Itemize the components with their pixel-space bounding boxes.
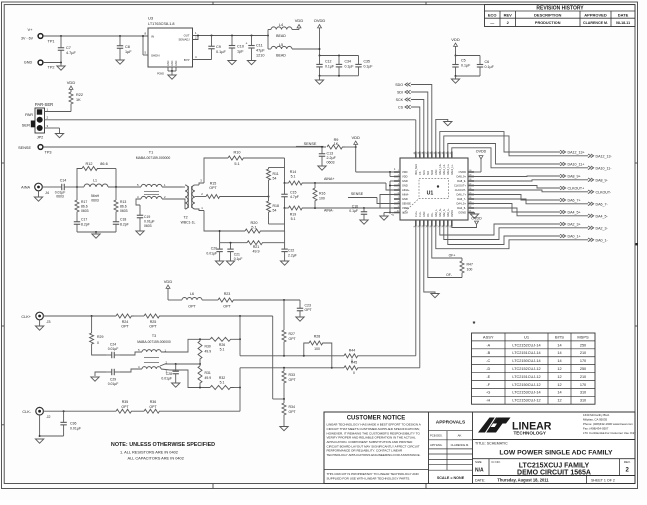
svg-text:-C: -C (486, 359, 490, 363)
svg-text:CLK+: CLK+ (21, 315, 31, 319)
capacitor C23 (296, 300, 313, 321)
wire DA6_7+ net (471, 195, 581, 203)
svg-text:AINA: AINA (21, 186, 30, 190)
svg-text:-D: -D (486, 367, 490, 371)
svg-text:CLK-: CLK- (419, 211, 422, 217)
svg-text:0603: 0603 (120, 209, 128, 213)
resistor R34 (280, 399, 297, 431)
svg-text:Thursday, August 18, 2011: Thursday, August 18, 2011 (497, 477, 549, 482)
resistor R20 bottom loop (204, 211, 285, 234)
svg-text:JP2: JP2 (37, 136, 44, 140)
wire PAR_SER net riser (415, 120, 417, 155)
svg-text:R36: R36 (150, 400, 156, 404)
svg-text:VDD: VDD (451, 37, 460, 42)
svg-text:DA2_3+: DA2_3+ (439, 208, 442, 217)
wire DA10_11- net (452, 148, 612, 171)
svg-text:R10: R10 (234, 151, 241, 155)
resistor R29 (90, 316, 106, 355)
svg-text:R33: R33 (289, 373, 295, 377)
svg-text:PAR-SER: PAR-SER (35, 102, 53, 107)
svg-text:21: 21 (469, 211, 471, 213)
svg-text:*: * (473, 321, 476, 328)
svg-text:DA12_13+: DA12_13+ (439, 163, 442, 175)
resistor R35 (116, 400, 144, 413)
capacitor C18 (113, 214, 129, 232)
svg-text:R17: R17 (81, 200, 87, 204)
VDD symbol at C5 (451, 37, 460, 57)
svg-text:TP3: TP3 (45, 151, 52, 155)
svg-text:0.01µF: 0.01µF (70, 427, 81, 431)
svg-text:Milpitas, CA 95035: Milpitas, CA 95035 (583, 418, 607, 422)
resistor R22 (67, 80, 83, 112)
svg-text:C21: C21 (234, 253, 240, 257)
svg-text:0603: 0603 (56, 195, 64, 199)
svg-text:C6: C6 (485, 60, 490, 64)
svg-text:R26: R26 (219, 343, 225, 347)
ground below C13 (318, 163, 326, 170)
svg-text:310: 310 (580, 399, 586, 403)
address block (583, 413, 636, 435)
svg-text:V+: V+ (27, 27, 33, 32)
svg-text:DA0_1+: DA0_1+ (447, 208, 450, 217)
ground U3 (168, 71, 176, 79)
svg-text:5.1: 5.1 (291, 174, 296, 178)
capacitor C9 (208, 36, 226, 60)
testpoint TP2 (24, 60, 55, 69)
svg-text:250: 250 (580, 343, 586, 347)
wire CLK+ to U1 (415, 223, 417, 356)
svg-text:28: 28 (469, 179, 471, 181)
svg-text:SCK: SCK (396, 98, 404, 102)
wire OF- net (428, 223, 462, 278)
wire VCM to ground (380, 213, 397, 221)
svg-text:DA10_11-: DA10_11- (596, 166, 613, 170)
svg-text:MSPS: MSPS (577, 334, 589, 339)
svg-text:-G: -G (486, 391, 490, 395)
VDD symbol clock (164, 279, 182, 300)
transformer T2 WBC1-1L (181, 179, 206, 225)
svg-text:C24: C24 (110, 343, 116, 347)
wire AINA+ net (285, 170, 398, 190)
wire J3 branch down (239, 316, 284, 399)
svg-text:CLARENCE M.: CLARENCE M. (583, 21, 608, 25)
svg-text:0.1µF: 0.1µF (349, 209, 358, 213)
svg-text:DA4_5-: DA4_5- (457, 206, 466, 210)
svg-text:C10: C10 (237, 45, 244, 49)
svg-text:OPT: OPT (305, 308, 313, 312)
wire DA2_3+ net (440, 222, 581, 235)
capacitor C34 (336, 56, 354, 76)
svg-text:REVISION HISTORY: REVISION HISTORY (536, 6, 584, 12)
capacitor C28 (161, 364, 180, 387)
svg-text:VDD: VDD (295, 18, 304, 23)
svg-text:ECO: ECO (488, 12, 497, 17)
svg-text:VCM: VCM (402, 211, 408, 215)
svg-text:DA4_5+: DA4_5+ (457, 202, 467, 206)
resistor R44 (344, 348, 416, 363)
svg-text:TP2: TP2 (48, 66, 55, 70)
ground below J4 (34, 190, 42, 201)
svg-text:CLKOUT+: CLKOUT+ (568, 187, 585, 191)
svg-text:U1: U1 (524, 334, 530, 339)
ground below C19 (136, 228, 144, 235)
wire VDD to U1 (356, 147, 397, 177)
svg-text:R16: R16 (319, 192, 325, 196)
svg-text:C14: C14 (60, 179, 67, 183)
wire DA8_9- net (471, 178, 608, 182)
svg-text:J2: J2 (46, 415, 50, 419)
resistor R9 (327, 138, 357, 149)
svg-text:OPT: OPT (121, 324, 129, 328)
svg-text:GND: GND (402, 184, 408, 188)
svg-text:4.7pF: 4.7pF (290, 195, 299, 199)
wire DA4_5+ net (471, 204, 581, 215)
svg-text:DA8_9+: DA8_9+ (568, 175, 581, 179)
svg-text:R20: R20 (251, 221, 258, 225)
svg-text:210: 210 (580, 351, 586, 355)
svg-text:SDI: SDI (397, 91, 403, 95)
svg-text:IN: IN (151, 35, 154, 39)
svg-text:2: 2 (398, 175, 399, 177)
svg-text:R19: R19 (290, 213, 296, 217)
svg-text:LTC215XCUJ FAMILY: LTC215XCUJ FAMILY (519, 463, 590, 470)
title block (324, 412, 635, 484)
svg-text:—: — (490, 20, 494, 25)
svg-text:R32: R32 (219, 376, 225, 380)
capacitor C36 (60, 411, 81, 436)
svg-text:C5: C5 (461, 59, 466, 63)
svg-text:CLK-: CLK- (22, 410, 31, 414)
svg-text:R35: R35 (122, 400, 128, 404)
ground below C12 C34 C35 (315, 75, 358, 84)
svg-text:1: 1 (398, 170, 399, 172)
svg-text:170: 170 (580, 359, 586, 363)
svg-text:SDO: SDO (395, 83, 403, 87)
transformer T1 (136, 151, 171, 200)
capacitor C20 (206, 243, 223, 266)
inductor L1 (84, 179, 108, 203)
svg-text:-H: -H (486, 399, 490, 403)
revision history table (485, 5, 636, 27)
svg-text:0.01µF: 0.01µF (108, 347, 119, 351)
resistor R47 (460, 258, 473, 278)
svg-text:R21: R21 (253, 245, 260, 249)
resistor R11 (267, 168, 285, 197)
svg-text:T2: T2 (183, 216, 187, 220)
svg-text:LTC2150CUJ-12: LTC2150CUJ-12 (512, 383, 540, 387)
svg-text:R13: R13 (120, 200, 126, 204)
wire CLKOUT+ net (471, 186, 584, 191)
svg-text:R12: R12 (86, 162, 93, 166)
svg-text:54: 54 (273, 209, 277, 213)
svg-text:R44: R44 (349, 348, 355, 352)
wire SCK (396, 98, 424, 155)
svg-text:0603: 0603 (91, 199, 99, 203)
wire U3 pin5 (142, 35, 148, 55)
svg-text:SER: SER (22, 123, 30, 128)
svg-text:250: 250 (580, 367, 586, 371)
resistor R18 (267, 197, 285, 225)
svg-text:-E: -E (486, 375, 490, 379)
svg-text:DA10_11+: DA10_11+ (568, 163, 585, 167)
vertical bus with C15 (281, 158, 299, 231)
title schematic (473, 440, 636, 459)
svg-text:C8: C8 (125, 45, 130, 49)
resistor R31 (198, 364, 211, 388)
svg-text:R28: R28 (314, 335, 320, 339)
svg-text:100: 100 (314, 347, 320, 351)
resistor R16 (313, 183, 325, 208)
svg-text:C35: C35 (364, 60, 370, 64)
svg-text:C7: C7 (66, 46, 71, 50)
svg-text:LTC2153CUJ-12: LTC2153CUJ-12 (512, 399, 540, 403)
wire CS (398, 105, 420, 155)
svg-text:OUT: OUT (184, 34, 190, 38)
svg-text:DA8_9-: DA8_9- (457, 179, 466, 183)
svg-text:AINA-: AINA- (402, 193, 409, 197)
svg-text:GND: GND (24, 61, 33, 65)
svg-text:5.1: 5.1 (220, 381, 225, 385)
svg-text:54: 54 (273, 177, 277, 181)
svg-text:DA12_13-: DA12_13- (596, 154, 613, 158)
wire T1 secondary to C19 (136, 199, 141, 205)
wire T1 to T2 (162, 187, 182, 199)
svg-text:210: 210 (580, 375, 586, 379)
VDD symbol at R9 (351, 135, 360, 147)
svg-text:R15: R15 (210, 182, 217, 186)
date row (473, 476, 636, 484)
svg-text:REV.: REV. (624, 460, 631, 464)
svg-text:86.6: 86.6 (120, 205, 127, 209)
svg-text:LTC2152CUJ-12: LTC2152CUJ-12 (512, 367, 540, 371)
wire upper clock line (240, 339, 344, 357)
svg-text:R45: R45 (351, 360, 357, 364)
resistor R23 (218, 292, 300, 309)
ferrite bead L4 (268, 23, 299, 38)
svg-text:0.1µF: 0.1µF (325, 65, 334, 69)
svg-text:N/A: N/A (475, 468, 484, 474)
svg-text:SENSE: SENSE (18, 146, 31, 150)
ferrite bead L5 (268, 36, 320, 58)
svg-text:PAR_SER: PAR_SER (415, 164, 418, 175)
svg-text:OPT: OPT (209, 186, 217, 190)
svg-text:R23: R23 (224, 292, 231, 296)
svg-text:47µF: 47µF (256, 49, 265, 53)
svg-text:R47: R47 (467, 263, 473, 267)
size and part number row (475, 459, 631, 477)
svg-text:C16: C16 (352, 205, 358, 209)
wire SENSE to U1 (348, 192, 397, 204)
svg-text:5: 5 (398, 188, 399, 190)
svg-text:C20: C20 (211, 247, 217, 251)
svg-text:1630 McCarthy Blvd.: 1630 McCarthy Blvd. (583, 413, 610, 417)
svg-text:1210: 1210 (256, 54, 264, 58)
svg-text:MABA-007159-000000: MABA-007159-000000 (137, 340, 171, 344)
svg-text:0.01µF: 0.01µF (108, 382, 119, 386)
svg-text:1µF: 1µF (237, 50, 244, 54)
svg-text:0.1µF: 0.1µF (461, 64, 471, 68)
wire input node A (70, 186, 84, 188)
svg-text:310: 310 (580, 391, 586, 395)
resistor R12 (77, 162, 116, 187)
svg-text:GND: GND (435, 169, 438, 175)
capacitor C24 (106, 343, 142, 359)
svg-text:2.2µF: 2.2µF (327, 156, 337, 160)
resistor R27 (282, 300, 297, 356)
svg-text:49.9: 49.9 (205, 376, 212, 380)
capacitor C5 (452, 56, 480, 77)
svg-text:40: 40 (414, 152, 416, 154)
svg-text:OPT: OPT (289, 337, 297, 341)
resistor R45 (332, 360, 420, 375)
svg-text:DATE: DATE (618, 12, 629, 17)
svg-text:86.6: 86.6 (100, 162, 107, 166)
assembly options table (472, 333, 596, 404)
svg-text:ALL CAPACITORS ARE IN 0402: ALL CAPACITORS ARE IN 0402 (128, 456, 184, 461)
capacitor C29 (91, 369, 120, 386)
svg-text:DA0_1-: DA0_1- (596, 238, 609, 242)
wire SDO (395, 83, 432, 155)
resistor R17 (75, 187, 89, 214)
svg-text:0: 0 (353, 371, 355, 375)
svg-text:LTC2151CUJ-14: LTC2151CUJ-14 (512, 351, 540, 355)
svg-text:C18: C18 (120, 218, 126, 222)
svg-text:ASSY: ASSY (483, 334, 494, 339)
svg-text:AINA+: AINA+ (324, 177, 335, 181)
svg-text:OF+: OF+ (431, 212, 434, 217)
svg-text:49.9: 49.9 (205, 350, 212, 354)
svg-text:VDD: VDD (402, 170, 408, 174)
svg-text:LTC Confidential-For Customer: LTC Confidential-For Customer Use Only (583, 431, 636, 435)
svg-text:1. ALL RESISTORS ARE IN 0402: 1. ALL RESISTORS ARE IN 0402 (120, 450, 178, 455)
capacitor C13 (319, 147, 337, 165)
wire CLK+ input (43, 315, 116, 317)
svg-text:0.1µF: 0.1µF (216, 50, 226, 54)
svg-text:T3: T3 (152, 334, 156, 338)
svg-text:J3: J3 (46, 320, 50, 324)
svg-text:DA12_13+: DA12_13+ (568, 151, 585, 155)
svg-text:SUPPLIED FOR USE WITH LINEAR T: SUPPLIED FOR USE WITH LINEAR TECHNOLOGY … (327, 477, 411, 481)
wire DA0_1+ net (448, 223, 581, 245)
svg-text:C28: C28 (166, 372, 172, 376)
svg-text:TITLE: SCHEMATIC: TITLE: SCHEMATIC (475, 442, 508, 446)
resistor R26 (210, 337, 240, 351)
svg-text:OF-: OF- (427, 213, 430, 217)
wire U3 BYP (193, 59, 212, 61)
svg-text:0.01µF: 0.01µF (206, 252, 217, 256)
svg-text:MABA-007159-000000: MABA-007159-000000 (136, 156, 171, 160)
capacitor C12 (316, 55, 358, 76)
capacitor C35 (355, 56, 372, 76)
svg-text:SENSE: SENSE (402, 202, 411, 206)
resistor R33 (282, 368, 297, 400)
capacitor C11 polarized (246, 36, 266, 59)
wire DA8_9+ net (471, 174, 581, 178)
svg-text:SDI: SDI (427, 171, 430, 175)
resistor R36 (144, 400, 240, 413)
svg-text:LT1763CS8-1.8: LT1763CS8-1.8 (148, 22, 175, 26)
svg-text:L6: L6 (190, 292, 194, 296)
approvals block (429, 420, 473, 480)
svg-text:23: 23 (469, 202, 471, 204)
wire DA4_5- net (471, 208, 608, 218)
svg-text:GND: GND (402, 179, 408, 183)
svg-text:CUSTOMER NOTICE: CUSTOMER NOTICE (347, 416, 406, 422)
svg-text:100: 100 (467, 268, 473, 272)
svg-text:AINA+: AINA+ (402, 188, 410, 192)
wire DA0_1- net (436, 223, 609, 249)
svg-text:OPT: OPT (289, 378, 297, 382)
note text (111, 442, 215, 461)
Linear Technology logo (478, 417, 552, 436)
svg-text:R31: R31 (205, 371, 211, 375)
svg-text:10: 10 (397, 211, 399, 213)
wire V+ rail (43, 35, 148, 37)
svg-text:R34: R34 (289, 405, 295, 409)
svg-text:GND: GND (402, 197, 408, 201)
resistor R13 (114, 187, 128, 214)
wire T3 pin1 to R26 (161, 338, 210, 352)
svg-text:DA0_1-: DA0_1- (435, 209, 438, 217)
svg-text:VDD: VDD (351, 135, 360, 140)
ground below C10 (228, 58, 236, 65)
svg-text:7: 7 (398, 197, 399, 199)
svg-text:27: 27 (469, 184, 471, 186)
svg-text:C13: C13 (327, 152, 334, 156)
svg-text:BITS: BITS (555, 334, 564, 339)
svg-text:OGND: OGND (458, 211, 466, 215)
svg-text:VDD: VDD (67, 80, 76, 85)
svg-text:LOW POWER SINGLE ADC FAMILY: LOW POWER SINGLE ADC FAMILY (499, 450, 613, 457)
wire DA12_13+ net (440, 132, 585, 155)
svg-text:GND: GND (167, 60, 170, 66)
wire CLK- input (43, 410, 116, 412)
svg-text:OPT: OPT (121, 405, 129, 409)
ground U1 bottom GND pin (424, 223, 439, 298)
svg-text:PCB DES.: PCB DES. (430, 434, 443, 438)
svg-text:SCK: SCK (423, 170, 426, 175)
svg-text:DA6_7-: DA6_7- (457, 197, 466, 201)
svg-text:3V - 6V: 3V - 6V (21, 37, 34, 41)
svg-text:DA10_11+: DA10_11+ (447, 163, 450, 175)
svg-text:5.1: 5.1 (234, 162, 239, 166)
regulator U3 LT1763CS8-1.8 (144, 16, 197, 76)
svg-text:26: 26 (469, 188, 471, 190)
svg-text:TP1: TP1 (48, 40, 55, 44)
svg-text:LTC2150CUJ-14: LTC2150CUJ-14 (512, 359, 540, 363)
svg-text:5.1: 5.1 (220, 348, 225, 352)
svg-text:170: 170 (580, 383, 586, 387)
svg-text:SENSE: SENSE (304, 142, 317, 146)
capacitor C7 (58, 36, 77, 62)
svg-text:AK: AK (458, 434, 462, 438)
svg-text:OPT: OPT (289, 410, 297, 414)
svg-text:8: 8 (398, 202, 399, 204)
ADC U1 LTC215x (391, 152, 474, 228)
svg-text:4.7µF: 4.7µF (66, 51, 76, 55)
svg-text:TECHNOLOGY APPLICATIONS ENGINE: TECHNOLOGY APPLICATIONS ENGINEERING FOR … (327, 453, 421, 457)
jumper JP2 PAR-SER (22, 102, 416, 140)
connector J3 CLK+ (21, 312, 50, 324)
svg-text:0.01µF: 0.01µF (161, 377, 172, 381)
svg-text:C29: C29 (110, 377, 116, 381)
ground JP2 pin3 (55, 128, 63, 138)
svg-text:9: 9 (398, 206, 399, 208)
svg-text:DA8_9-: DA8_9- (596, 178, 609, 182)
capacitor C16 (349, 205, 397, 219)
svg-text:SENSE: SENSE (351, 192, 364, 196)
svg-text:0603: 0603 (144, 224, 152, 228)
